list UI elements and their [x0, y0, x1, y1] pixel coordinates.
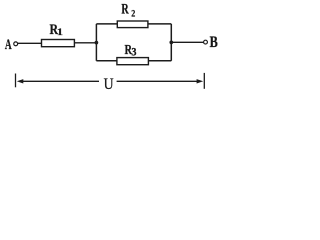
wire top right — [148, 23, 171, 25]
wire bottom right — [148, 60, 171, 62]
svg-text:R: R — [121, 0, 129, 16]
wire top left — [96, 23, 117, 25]
label R1 — [50, 21, 63, 38]
svg-text:1: 1 — [57, 27, 63, 38]
label R3 — [125, 41, 137, 58]
wire R1 to node C — [74, 42, 96, 44]
wire A to R1 — [18, 42, 42, 44]
dimension arrow right — [197, 79, 204, 83]
dimension tick left — [15, 74, 17, 88]
svg-text:2: 2 — [131, 8, 136, 19]
terminal B — [204, 40, 208, 44]
svg-text:U: U — [104, 76, 114, 93]
dimension tick right — [203, 73, 205, 89]
dimension line left segment — [21, 80, 99, 82]
dimension arrow left — [17, 79, 24, 83]
svg-text:3: 3 — [131, 46, 137, 59]
resistor R2 — [117, 21, 148, 28]
dimension line right segment — [117, 80, 199, 82]
junction node D — [169, 41, 173, 45]
wire node D to B — [171, 41, 203, 43]
resistor R3 — [117, 58, 148, 65]
terminal A — [14, 42, 18, 46]
wire right vertical — [170, 24, 172, 61]
wire left vertical — [95, 24, 97, 61]
resistor R1 — [42, 40, 75, 47]
junction node C — [95, 41, 99, 45]
wire bottom left — [96, 60, 117, 62]
svg-text:A: A — [5, 36, 12, 53]
svg-text:B: B — [210, 34, 219, 52]
label R2 — [121, 0, 135, 18]
